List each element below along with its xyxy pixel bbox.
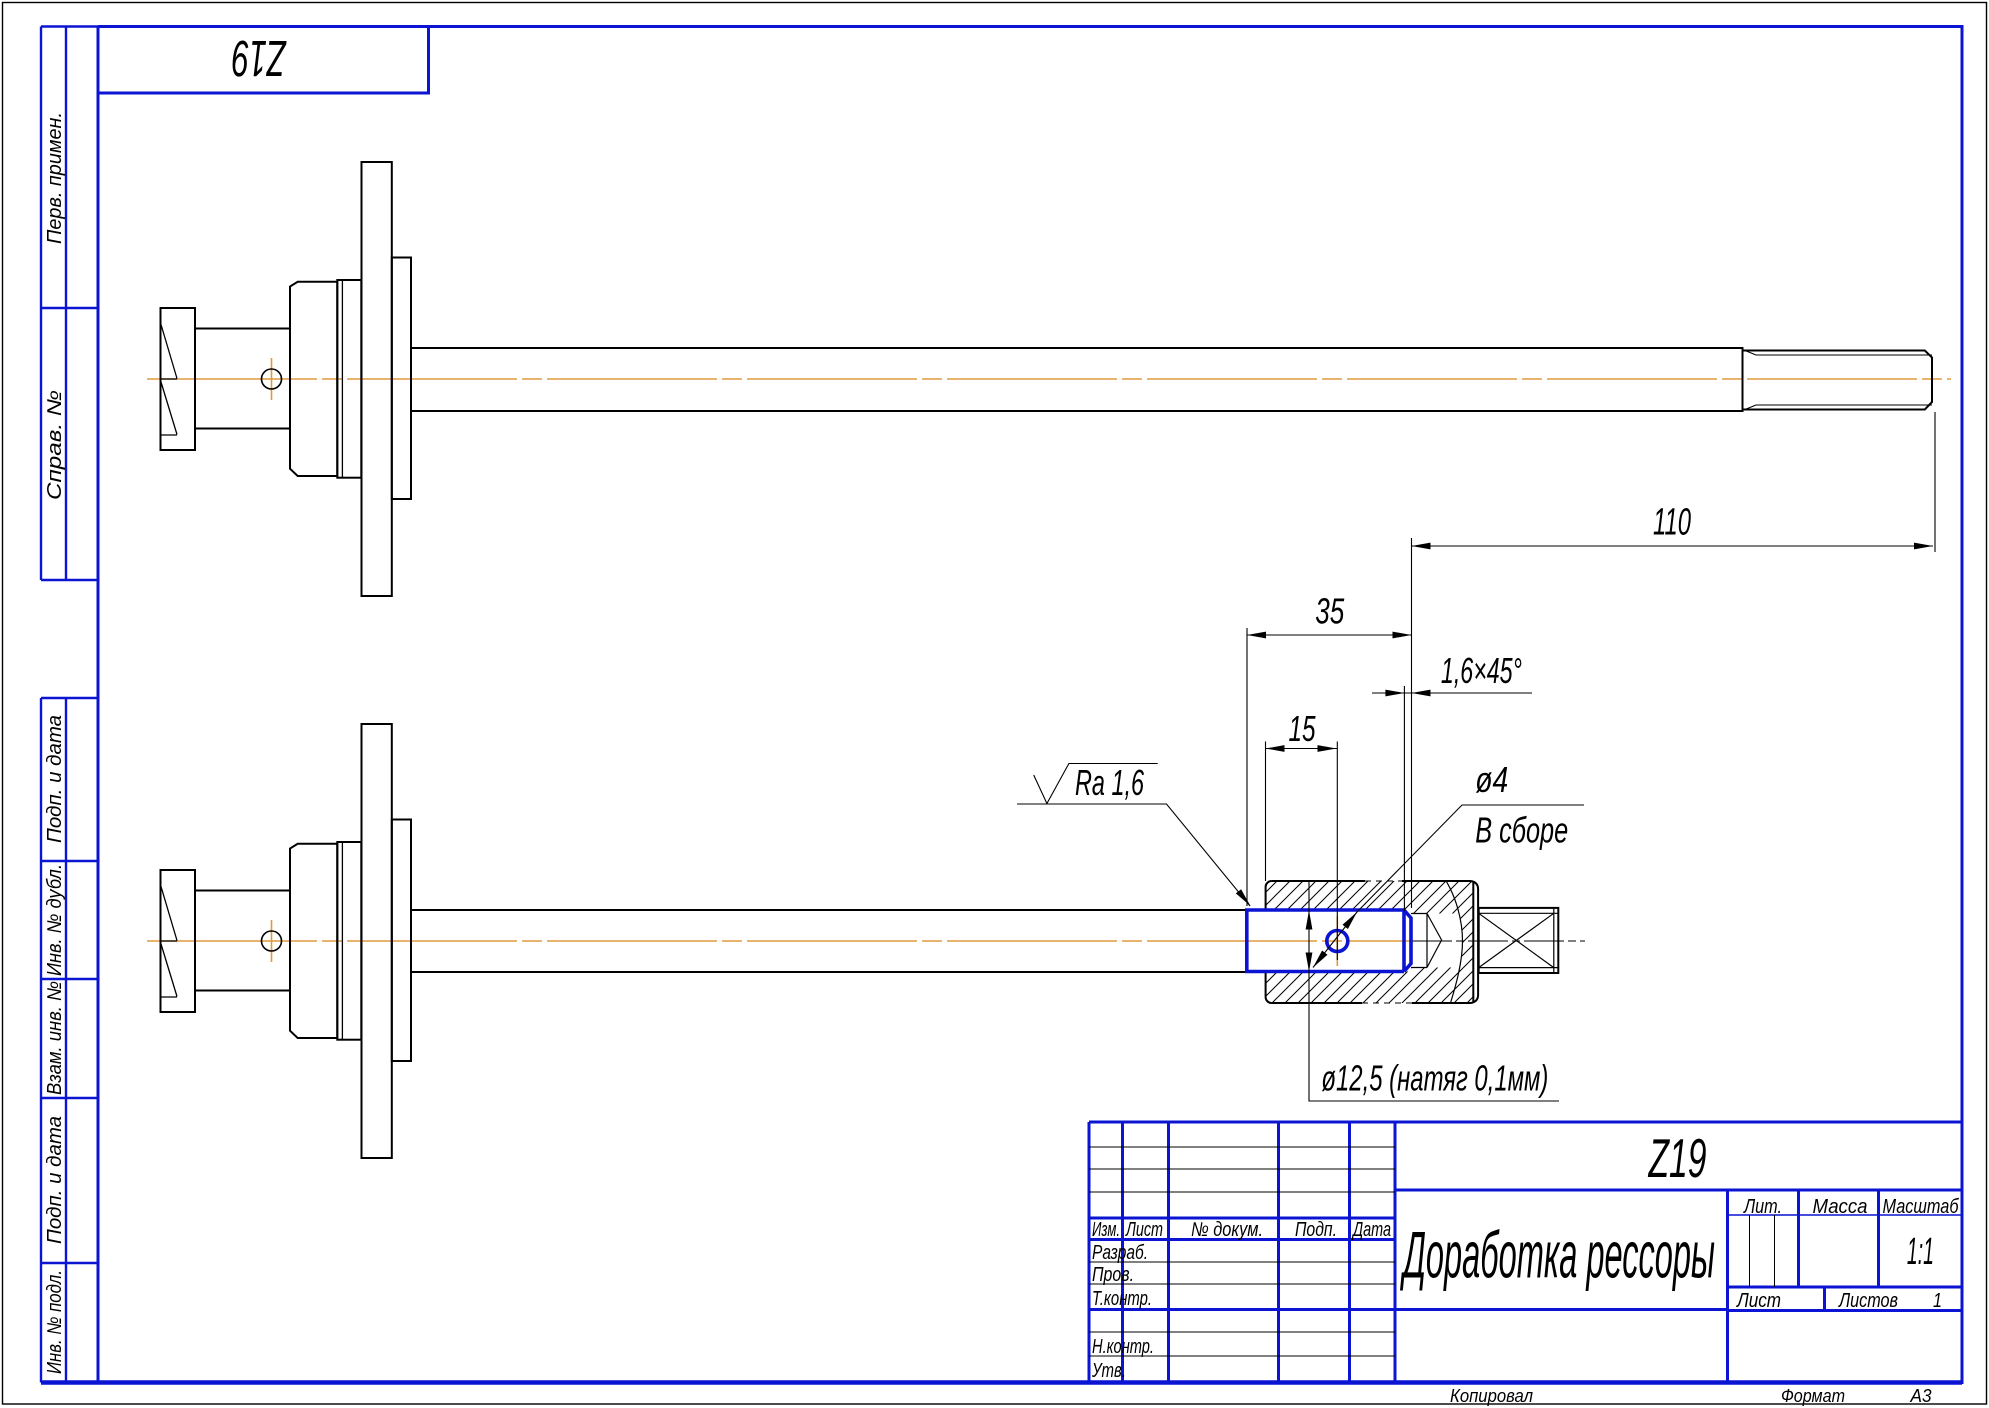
svg-text:Масса: Масса	[1813, 1196, 1868, 1218]
svg-text:Утв.: Утв.	[1091, 1360, 1126, 1382]
svg-text:Т.контр.: Т.контр.	[1092, 1288, 1152, 1310]
svg-text:ø12,5 (натяг 0,1мм): ø12,5 (натяг 0,1мм)	[1321, 1058, 1548, 1099]
svg-text:Z19: Z19	[232, 30, 287, 87]
svg-text:Подп. и дата: Подп. и дата	[44, 1116, 66, 1244]
svg-text:110: 110	[1653, 501, 1691, 543]
svg-text:Подп. и дата: Подп. и дата	[44, 715, 66, 843]
svg-text:Справ. №: Справ. №	[44, 390, 66, 500]
svg-text:1: 1	[1933, 1290, 1942, 1312]
svg-text:35: 35	[1315, 590, 1345, 631]
svg-text:Листов: Листов	[1837, 1290, 1898, 1312]
svg-text:Лист: Лист	[1125, 1219, 1163, 1241]
svg-text:Перв. примен.: Перв. примен.	[44, 112, 66, 244]
svg-text:Пров.: Пров.	[1092, 1264, 1134, 1286]
svg-text:Изм.: Изм.	[1092, 1219, 1120, 1241]
svg-text:Разраб.: Разраб.	[1092, 1242, 1148, 1264]
svg-text:Лит.: Лит.	[1742, 1196, 1782, 1218]
svg-text:Доработка рессоры: Доработка рессоры	[1400, 1218, 1715, 1292]
svg-text:Масштаб: Масштаб	[1883, 1196, 1960, 1218]
svg-text:Взам. инв. №: Взам. инв. №	[44, 981, 66, 1095]
svg-text:Подп.: Подп.	[1295, 1219, 1337, 1241]
svg-text:Z19: Z19	[1647, 1127, 1706, 1189]
svg-text:Ra 1,6: Ra 1,6	[1075, 762, 1145, 803]
svg-text:1,6×45°: 1,6×45°	[1441, 650, 1522, 691]
svg-text:А3: А3	[1910, 1386, 1932, 1406]
svg-text:Копировал: Копировал	[1450, 1386, 1533, 1406]
svg-text:1:1: 1:1	[1907, 1231, 1934, 1273]
svg-text:15: 15	[1289, 708, 1317, 749]
svg-text:№ докум.: № докум.	[1191, 1219, 1263, 1241]
svg-text:Инв. № подл.: Инв. № подл.	[44, 1270, 66, 1374]
svg-text:В сборе: В сборе	[1475, 810, 1568, 851]
svg-text:Лист: Лист	[1735, 1290, 1781, 1312]
svg-text:ø4: ø4	[1475, 759, 1508, 800]
svg-text:Н.контр.: Н.контр.	[1092, 1336, 1154, 1358]
svg-text:Дата: Дата	[1352, 1219, 1391, 1241]
svg-text:Формат: Формат	[1781, 1386, 1845, 1406]
svg-text:Инв. № дубл.: Инв. № дубл.	[44, 864, 66, 976]
